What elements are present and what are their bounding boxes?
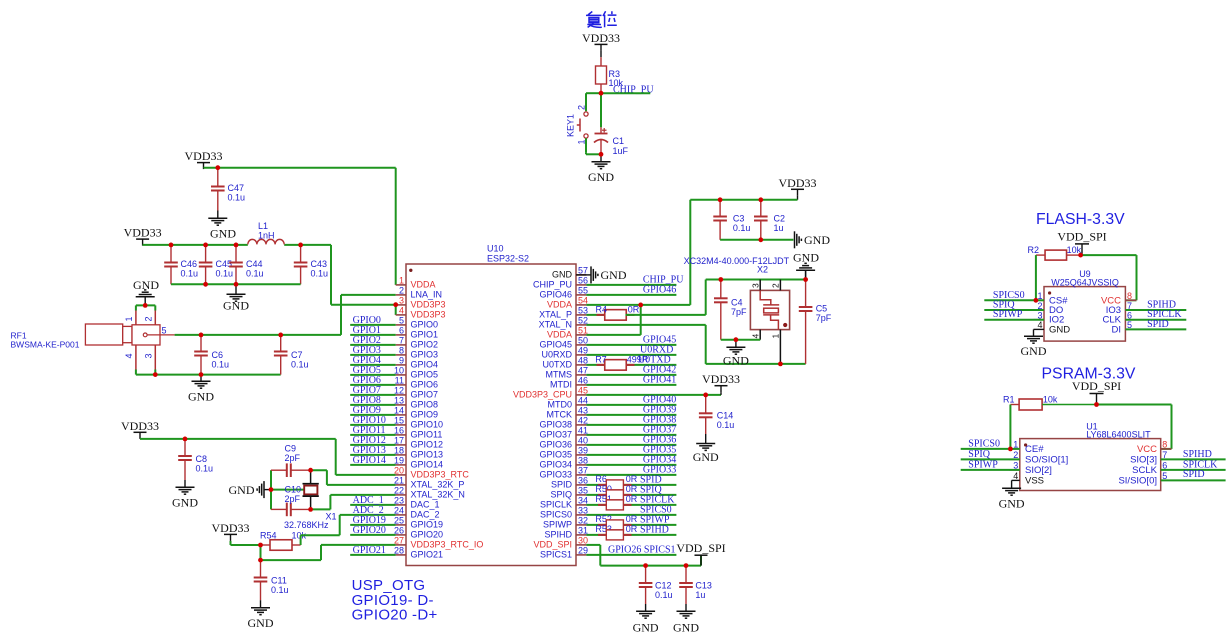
- U10 pin 14 GPIO9: [394, 406, 438, 420]
- svg-text:GPIO33: GPIO33: [539, 470, 572, 480]
- net label SPICLK (U9 pin6): [1147, 309, 1182, 320]
- U10 pin 21 XTAL_32K_P: [394, 476, 464, 490]
- svg-text:7pF: 7pF: [816, 313, 832, 323]
- wire VDDA pin 51 branch: [586, 305, 640, 335]
- svg-text:XTAL_N: XTAL_N: [539, 320, 572, 330]
- svg-text:C8: C8: [196, 454, 208, 464]
- svg-text:VDD33: VDD33: [121, 419, 159, 433]
- wire/net SPIWP (U9 pin3): [984, 309, 1044, 320]
- svg-text:ADC_2: ADC_2: [353, 505, 384, 516]
- ground (32K crystal, sideways): [229, 481, 272, 498]
- wire/net GPIO33 (pin 37): [586, 465, 676, 476]
- svg-text:DAC_1: DAC_1: [411, 500, 440, 510]
- net label SPID (U9 pin5): [1147, 319, 1169, 330]
- wire/net GPIO39 (pin 43): [586, 405, 676, 416]
- wire RF1 pins 3/4 to ground rail: [136, 370, 281, 375]
- capacitor C4: [714, 280, 747, 340]
- svg-text:VDD3P3_RTC: VDD3P3_RTC: [411, 470, 470, 480]
- U10 pin 2 LNA_IN: [396, 286, 442, 300]
- svg-text:0.1u: 0.1u: [228, 193, 246, 203]
- wire VDD_SPI to U9 VCC: [1081, 255, 1137, 300]
- ground (U9 pin4): [1021, 329, 1047, 358]
- svg-text:SPID: SPID: [1183, 469, 1205, 480]
- wire/net SPIWP (U1 pin3): [961, 460, 1020, 471]
- wire X1 top to pin 21: [311, 470, 396, 485]
- svg-text:XTAL_32K_P: XTAL_32K_P: [411, 480, 465, 490]
- node C14 junction: [703, 393, 708, 398]
- svg-text:GPIO34: GPIO34: [539, 460, 572, 470]
- U10 pin 22 XTAL_32K_N: [394, 486, 465, 500]
- switch KEY1: [566, 105, 589, 145]
- svg-text:XC32M4-40.000-F12LJDT: XC32M4-40.000-F12LJDT: [684, 256, 790, 266]
- svg-text:VDD33: VDD33: [212, 521, 250, 535]
- svg-text:SPIWP: SPIWP: [543, 520, 572, 530]
- svg-text:CE#: CE#: [1025, 444, 1044, 455]
- wire/net GPIO7 (pin 12): [350, 385, 396, 396]
- svg-text:GPIO5: GPIO5: [411, 370, 439, 380]
- node C6 junction: [199, 333, 204, 338]
- node C4 junction: [718, 277, 723, 282]
- svg-text:R6: R6: [595, 474, 607, 484]
- svg-text:6: 6: [399, 326, 404, 336]
- svg-text:0.1u: 0.1u: [717, 420, 735, 430]
- ground (RF bottom): [188, 375, 214, 404]
- node C1 bottom junction: [599, 152, 604, 157]
- resistor R2: [1028, 245, 1082, 260]
- svg-text:SPIHD: SPIHD: [544, 530, 572, 540]
- U10 pin 34 SPICLK: [540, 496, 588, 510]
- power flag VDD33 (crystal): [779, 176, 817, 196]
- svg-text:C46: C46: [181, 259, 198, 269]
- svg-text:32.768KHz: 32.768KHz: [284, 520, 329, 530]
- svg-text:VDD33: VDD33: [582, 31, 620, 45]
- node VDD_SPI junction (psram): [1094, 402, 1099, 407]
- svg-text:SPICS1: SPICS1: [540, 550, 572, 560]
- svg-text:C5: C5: [816, 304, 828, 314]
- svg-text:1nH: 1nH: [258, 231, 275, 241]
- svg-text:C1: C1: [613, 136, 625, 146]
- U10 pin 41 GPIO37: [539, 426, 588, 440]
- svg-text:0.1u: 0.1u: [291, 360, 309, 370]
- wire/net GPIO9 (pin 14): [350, 405, 396, 416]
- svg-text:1: 1: [124, 316, 134, 321]
- svg-text:SO/SIO[1]: SO/SIO[1]: [1025, 454, 1068, 465]
- wire filter ground rail: [171, 283, 301, 285]
- svg-text:GND: GND: [723, 354, 749, 368]
- svg-text:VDD_SPI: VDD_SPI: [1072, 379, 1121, 393]
- wire VDD33 to R3: [600, 51, 602, 66]
- svg-text:GND: GND: [248, 616, 274, 630]
- node C7 junction: [278, 333, 283, 338]
- capacitor C43: [294, 245, 328, 284]
- svg-text:C13: C13: [695, 581, 712, 591]
- svg-text:MTMS: MTMS: [546, 370, 573, 380]
- svg-text:GND: GND: [693, 450, 719, 464]
- wire/net SPIQ (U1 pin2): [961, 449, 1020, 460]
- wire VDD33 crystal rail: [690, 196, 797, 200]
- svg-text:GPIO1: GPIO1: [411, 330, 439, 340]
- U10 pin 46 MTDI: [550, 376, 588, 390]
- node R54 left junction: [258, 543, 263, 548]
- wire/net GPIO8 (pin 13): [350, 395, 396, 406]
- node C47 junction: [215, 165, 220, 170]
- U10 pin 38 GPIO34: [539, 456, 588, 470]
- wire VDD33 filter rail: [143, 244, 331, 246]
- resistor R54: [260, 531, 307, 551]
- svg-text:VDD3P3: VDD3P3: [411, 300, 446, 310]
- wire KEY1 to GND node: [586, 138, 601, 154]
- U10 pin 30 VDD_SPI: [533, 536, 588, 550]
- svg-text:GND: GND: [793, 250, 819, 264]
- svg-text:XTAL_32K_N: XTAL_32K_N: [411, 490, 465, 500]
- capacitor C14: [699, 395, 734, 434]
- power flag VDD_SPI (decoupling): [676, 541, 725, 566]
- svg-text:0.1u: 0.1u: [216, 269, 234, 279]
- svg-text:2: 2: [771, 283, 781, 288]
- svg-text:VDDA: VDDA: [547, 330, 572, 340]
- ground (filter): [223, 284, 249, 312]
- title PSRAM-3.3V: [1042, 366, 1136, 383]
- inductor L1: [248, 221, 284, 244]
- node X2 pin1 junction: [778, 362, 783, 367]
- svg-text:4: 4: [124, 353, 134, 358]
- svg-text:GPIO4: GPIO4: [411, 360, 439, 370]
- U10 pin 27 VDD3P3_RTC_IO: [394, 536, 483, 550]
- svg-text:20: 20: [394, 466, 404, 476]
- svg-text:GPIO3: GPIO3: [411, 350, 439, 360]
- U10 pin 25 GPIO19: [394, 516, 443, 530]
- node R2 junction: [1078, 253, 1083, 258]
- wire/net GPIO6 (pin 11): [350, 375, 396, 386]
- IC U9 W25Q64JVSSIQ: [1034, 269, 1187, 341]
- svg-text:LNA_IN: LNA_IN: [411, 290, 443, 300]
- svg-text:C3: C3: [733, 214, 745, 224]
- power flag VDD33 (RF filter): [124, 226, 162, 246]
- capacitor C1 (polarized): [594, 93, 629, 156]
- crystal X1 32.768KHz: [284, 470, 337, 530]
- svg-text:3: 3: [144, 353, 154, 358]
- svg-text:VDDA: VDDA: [547, 300, 572, 310]
- wire/net GPIO41 (pin 46): [586, 375, 676, 386]
- svg-text:SPIHD: SPIHD: [1183, 449, 1212, 460]
- svg-text:GPIO21: GPIO21: [353, 545, 386, 556]
- node C2 junction: [758, 197, 763, 202]
- svg-text:R2: R2: [1028, 245, 1040, 255]
- wire/net SPICS0 (pin 33): [586, 505, 676, 516]
- net label SPICLK (U1 pin6): [1183, 459, 1218, 470]
- capacitor C11: [254, 560, 289, 600]
- svg-text:GND: GND: [229, 483, 255, 497]
- svg-text:VDD3P3_CPU: VDD3P3_CPU: [513, 390, 572, 400]
- svg-text:X2: X2: [757, 265, 768, 275]
- svg-text:SPIQ: SPIQ: [968, 449, 990, 460]
- wire/net GPIO34 (pin 38): [586, 455, 676, 466]
- svg-text:1: 1: [399, 276, 404, 286]
- svg-text:U0RXD: U0RXD: [541, 350, 572, 360]
- svg-text:0R: 0R: [626, 514, 638, 524]
- power flag VDD33 (RF top): [185, 149, 223, 169]
- U10 pin 16 GPIO11: [394, 426, 442, 440]
- svg-text:GND: GND: [223, 299, 249, 313]
- wire X1 bottom to pin 22: [311, 495, 396, 510]
- U10 pin 9 GPIO4: [396, 356, 438, 370]
- wire/net GPIO40 (pin 44): [586, 395, 676, 406]
- wire 32K gnd branch to crystal: [271, 489, 304, 491]
- net label SPIHD (U9 pin7): [1147, 300, 1176, 311]
- node C43 junction: [298, 243, 303, 248]
- U10 pin 10 GPIO5: [394, 366, 438, 380]
- power flag VDD33 (CPU): [702, 372, 740, 395]
- wire crystal caps ground rail: [720, 239, 793, 241]
- wire RF1 pin5 to LNA_IN: [175, 295, 396, 335]
- capacitor C3: [713, 200, 750, 240]
- svg-text:GPIO20: GPIO20: [353, 525, 386, 536]
- node X1 top junction: [308, 468, 313, 473]
- U10 pin 35 SPIQ: [550, 486, 588, 500]
- svg-text:27: 27: [394, 536, 404, 546]
- node U9 pin1 junction: [1034, 298, 1039, 303]
- svg-text:9: 9: [399, 356, 404, 366]
- net label SPID (U1 pin5): [1183, 469, 1205, 480]
- svg-text:VDD33: VDD33: [185, 149, 223, 163]
- power flag VDD33 (RTC): [121, 419, 159, 439]
- wire C11 node to pin 27: [261, 545, 396, 560]
- svg-text:SPIWP: SPIWP: [993, 309, 1023, 320]
- U10 pin 24 DAC_2: [394, 506, 440, 520]
- svg-text:1: 1: [771, 334, 781, 339]
- ground (RF1 top): [133, 278, 159, 305]
- svg-text:6: 6: [1127, 311, 1132, 321]
- capacitor C10: [271, 485, 311, 517]
- svg-text:GPIO20: GPIO20: [411, 530, 444, 540]
- U10 pin 50 GPIO45: [539, 336, 588, 350]
- svg-text:MTD0: MTD0: [548, 400, 573, 410]
- node X2 top right junction: [803, 277, 808, 282]
- svg-text:GPIO45: GPIO45: [539, 340, 572, 350]
- svg-text:8: 8: [399, 346, 404, 356]
- wire/net GPIO1 (pin 6): [350, 325, 396, 336]
- svg-text:0.1u: 0.1u: [181, 269, 199, 279]
- svg-text:GND: GND: [601, 268, 627, 282]
- wire/net GPIO14 (pin 19): [350, 455, 396, 466]
- svg-text:SPIQ: SPIQ: [550, 490, 572, 500]
- IC U1 LY68L6400SLIT: [1010, 421, 1226, 490]
- svg-text:MTCK: MTCK: [547, 410, 573, 420]
- U10 pin 51 VDDA: [547, 326, 588, 340]
- ground (C12): [633, 604, 659, 635]
- U10 pin 17 GPIO12: [394, 436, 443, 450]
- power flag VDD33 (reset): [582, 31, 620, 51]
- U10 pin 6 GPIO1: [396, 326, 438, 340]
- svg-text:MTDI: MTDI: [550, 380, 572, 390]
- svg-text:10k: 10k: [1043, 394, 1058, 404]
- capacitor C13: [679, 566, 712, 604]
- wire VDD33 node down to C11 node: [260, 545, 262, 560]
- svg-text:GND: GND: [804, 233, 830, 247]
- net label CHIP_PU (reset): [613, 84, 654, 95]
- svg-text:L1: L1: [258, 221, 268, 231]
- resistor R4 (XTAL_P): [586, 304, 639, 320]
- svg-text:5: 5: [162, 326, 167, 336]
- resistor R52 (SPIWP): [586, 514, 676, 530]
- node 32K left junction: [269, 487, 274, 492]
- wire/net GPIO12 (pin 17): [350, 435, 396, 446]
- svg-text:7pF: 7pF: [731, 307, 747, 317]
- svg-text:GPIO46: GPIO46: [643, 285, 676, 296]
- power flag VDD33 (R54): [212, 521, 250, 541]
- svg-text:GPIO35: GPIO35: [539, 450, 572, 460]
- svg-text:C2: C2: [774, 214, 786, 224]
- U10 pin 52 XTAL_N: [539, 316, 588, 330]
- svg-text:GND: GND: [999, 497, 1025, 511]
- svg-text:VDD_SPI: VDD_SPI: [1057, 230, 1106, 244]
- wire/net GPIO13 (pin 18): [350, 445, 396, 456]
- ground (C13): [673, 604, 699, 635]
- wire 32K network left rail: [270, 470, 272, 509]
- wire/net SPICS0 (U9 pin1): [984, 290, 1044, 301]
- svg-text:C47: C47: [228, 183, 245, 193]
- svg-text:R54: R54: [260, 531, 277, 541]
- svg-text:0R: 0R: [626, 494, 638, 504]
- svg-text:GPIO7: GPIO7: [411, 390, 439, 400]
- svg-text:22: 22: [394, 486, 404, 496]
- U10 pin 33 SPICS0: [540, 506, 588, 520]
- U10 pin 7 GPIO2: [396, 336, 438, 350]
- U10 pin 44 MTD0: [548, 396, 589, 410]
- wire R2 to pin1 (SPICS0): [1035, 255, 1037, 299]
- capacitor C44: [229, 245, 263, 284]
- svg-text:VSS: VSS: [1025, 475, 1044, 486]
- wire filter rail to pins 3/4: [331, 245, 396, 315]
- svg-text:VDD3P3_RTC_IO: VDD3P3_RTC_IO: [411, 540, 484, 550]
- svg-text:GPIO26 SPICS1: GPIO26 SPICS1: [608, 545, 676, 556]
- resistor R6 (SPID): [586, 474, 676, 490]
- U10 pin 57 GND: [552, 266, 588, 280]
- svg-text:1uF: 1uF: [613, 146, 629, 156]
- svg-text:FLASH-3.3V: FLASH-3.3V: [1036, 211, 1125, 228]
- node C46 junction: [169, 243, 174, 248]
- U10 pin 53 XTAL_P: [539, 306, 588, 320]
- wire RF1 pins 1/2 to ground: [136, 305, 155, 310]
- svg-text:GND: GND: [133, 278, 159, 292]
- svg-text:GND: GND: [673, 621, 699, 635]
- ground (pin 57, sideways): [576, 266, 627, 283]
- node ground rail C45: [203, 282, 208, 287]
- svg-text:GPIO37: GPIO37: [539, 430, 572, 440]
- resistor R53 (SPIHD): [586, 524, 676, 540]
- svg-text:24: 24: [394, 506, 404, 516]
- U10 pin 42 GPIO38: [539, 416, 588, 430]
- U10 pin 29 SPICS1: [540, 546, 588, 560]
- node CHIP_PU junction: [599, 91, 604, 96]
- resistor R1: [1003, 394, 1097, 410]
- ground (C14): [693, 434, 719, 464]
- U10 pin 28 GPIO21: [394, 546, 443, 560]
- node C45 junction: [203, 243, 208, 248]
- svg-text:GPIO19: GPIO19: [411, 520, 444, 530]
- svg-text:GND: GND: [588, 170, 614, 184]
- U10 pin 43 MTCK: [547, 406, 589, 420]
- svg-text:C7: C7: [291, 350, 303, 360]
- node C2 bottom junction: [758, 237, 763, 242]
- ground (C2/C3, sideways): [795, 231, 831, 248]
- svg-text:GPIO20 -D+: GPIO20 -D+: [352, 607, 438, 624]
- svg-text:LY68L6400SLIT: LY68L6400SLIT: [1086, 430, 1151, 440]
- net label SPIHD: [640, 525, 669, 536]
- svg-text:2: 2: [144, 316, 154, 321]
- svg-text:1u: 1u: [774, 223, 784, 233]
- svg-text:VDD33: VDD33: [779, 176, 817, 190]
- ground (C8): [172, 480, 198, 510]
- wire/net U0RXD (pin 49): [586, 345, 676, 356]
- power flag VDD_SPI (flash): [1057, 230, 1106, 256]
- svg-text:5: 5: [1127, 320, 1132, 330]
- wire/net GPIO19 (pin 25): [350, 515, 396, 526]
- svg-text:GPIO11: GPIO11: [411, 430, 443, 440]
- svg-text:SIO[3]: SIO[3]: [1130, 454, 1157, 465]
- wire/net SPICS1 (pin 29): [586, 545, 676, 556]
- capacitor C45: [199, 245, 233, 284]
- svg-text:GPIO8: GPIO8: [411, 400, 439, 410]
- node C44 junction: [234, 243, 239, 248]
- wire R3 to node CHIP_PU: [600, 84, 602, 93]
- wire/net SPICS0 (U1 pin1): [961, 439, 1020, 450]
- wire C4 / X2 pin4 ground: [721, 339, 760, 341]
- wire VDDA pin 54 to VDD33 rail: [586, 200, 690, 305]
- ground (U1 pin4 VSS): [999, 480, 1025, 510]
- net label ADC_2 (pin 24): [353, 505, 384, 516]
- svg-text:R1: R1: [1003, 394, 1015, 404]
- node C6 ground junction: [199, 372, 204, 377]
- svg-text:GPIO21: GPIO21: [411, 550, 444, 560]
- net label SPIWP: [640, 515, 670, 526]
- U10 pin 54 VDDA: [547, 296, 588, 310]
- svg-text:0.1u: 0.1u: [733, 223, 751, 233]
- svg-text:VDD_SPI: VDD_SPI: [533, 540, 572, 550]
- node C13 junction: [684, 563, 689, 568]
- U10 pin 36 SPID: [551, 476, 588, 490]
- ground (X2 bottom): [723, 340, 749, 368]
- U10 pin 26 GPIO20: [394, 526, 443, 540]
- resistor R50 (SPIQ): [586, 484, 676, 500]
- wire/net GPIO20 (pin 26): [350, 525, 396, 536]
- svg-text:3: 3: [399, 296, 404, 306]
- U10 pin 12 GPIO7: [394, 386, 438, 400]
- svg-text:11: 11: [395, 376, 404, 386]
- svg-text:VDD33: VDD33: [124, 226, 162, 240]
- capacitor C47: [211, 168, 245, 211]
- capacitor C9: [271, 444, 311, 478]
- U10 pin 55 GPIO46: [539, 286, 588, 300]
- svg-text:SPICS0: SPICS0: [540, 510, 572, 520]
- title RESET (Chinese): [586, 11, 617, 27]
- svg-text:ESP32-S2: ESP32-S2: [487, 254, 529, 264]
- U10 pin 37 GPIO33: [539, 466, 588, 480]
- svg-text:GPIO10: GPIO10: [411, 420, 444, 430]
- svg-text:GND: GND: [1021, 344, 1047, 358]
- svg-text:2: 2: [577, 105, 587, 110]
- svg-text:GND: GND: [633, 621, 659, 635]
- svg-text:8: 8: [1162, 440, 1167, 450]
- U10 pin 49 U0RXD: [541, 346, 588, 360]
- svg-text:R7: R7: [595, 354, 607, 364]
- svg-text:C12: C12: [655, 581, 672, 591]
- svg-text:0.1u: 0.1u: [655, 590, 673, 600]
- wire R1 to pin1 (SPICS0): [1009, 405, 1011, 449]
- svg-text:C10: C10: [285, 485, 302, 495]
- U10 pin 45 VDD3P3_CPU: [513, 386, 588, 400]
- svg-text:4: 4: [399, 306, 404, 316]
